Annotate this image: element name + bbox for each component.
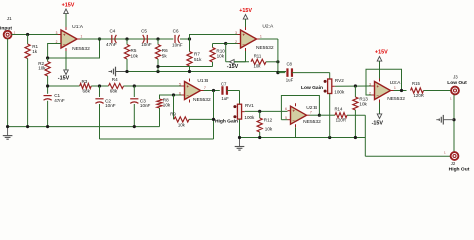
connector J3 Low Out [447, 74, 467, 100]
svg-text:3: 3 [56, 31, 58, 35]
wire C7 to RV1 [239, 91, 241, 105]
potentiometer RV2 100k [324, 78, 345, 95]
svg-text:10k: 10k [163, 102, 171, 107]
capacitor C7 1uF [221, 81, 240, 101]
svg-text:68k: 68k [82, 89, 90, 94]
svg-text:10k: 10k [38, 65, 46, 70]
node J3 ground junction [452, 118, 455, 121]
svg-text:C8: C8 [286, 62, 292, 67]
node A junction [26, 33, 29, 36]
node R13 rail junction [354, 136, 357, 139]
svg-text:U3:A: U3:A [390, 80, 402, 86]
node R11 output junction [276, 60, 279, 63]
ground bus bottom left [8, 126, 160, 128]
svg-text:3: 3 [369, 82, 371, 86]
wire U2:B output [310, 114, 320, 116]
capacitor C4 47nF [106, 29, 117, 47]
svg-text:5k: 5k [162, 54, 168, 59]
svg-text:1uF: 1uF [286, 77, 294, 82]
svg-text:Low Gain: Low Gain [301, 85, 323, 91]
svg-text:NE5532: NE5532 [193, 97, 211, 103]
svg-text:10nF: 10nF [172, 42, 183, 47]
node feedback-R2 junction [46, 56, 49, 59]
node U2:A pin2 junction [224, 42, 237, 45]
svg-text:10k: 10k [359, 101, 367, 106]
resistor R5 10k [124, 39, 138, 72]
svg-text:1uF: 1uF [221, 96, 229, 101]
+15V power U2:A [239, 8, 252, 27]
ground rail / low line [116, 71, 287, 73]
wire C6 to R7 node [180, 38, 190, 40]
svg-text:NE5532: NE5532 [72, 46, 90, 52]
svg-text:10k: 10k [217, 54, 225, 59]
resistor R7 51k [187, 39, 202, 72]
svg-text:High Gain: High Gain [215, 119, 238, 125]
svg-text:U1:A: U1:A [72, 24, 84, 30]
svg-text:J3: J3 [453, 74, 458, 79]
svg-text:1k: 1k [32, 49, 38, 54]
resistor R6 5k [155, 39, 168, 67]
node R9 right junction [212, 118, 215, 121]
svg-text:100k: 100k [334, 90, 345, 95]
svg-text:J1: J1 [7, 16, 12, 21]
node R7 junction [188, 37, 191, 40]
node R12 rail junction [258, 136, 261, 139]
svg-text:NE5532: NE5532 [256, 45, 274, 51]
resistor R12 10k [257, 111, 273, 137]
wire R10 to pin2 node [213, 43, 226, 45]
capacitor C1 47nF [44, 86, 65, 127]
svg-text:R14: R14 [334, 107, 342, 112]
svg-text:10k: 10k [131, 54, 139, 59]
svg-text:RV1: RV1 [245, 103, 254, 108]
svg-text:U2:B: U2:B [306, 105, 317, 111]
ground symbol sideways left [109, 67, 128, 77]
capacitor C3 10nF [130, 86, 150, 127]
resistor R11 10k [251, 54, 278, 69]
wire U1:A output row [80, 38, 173, 40]
resistor R13 10k [353, 86, 368, 138]
wire J1 ground pin down [7, 39, 9, 127]
svg-text:1: 1 [81, 34, 83, 38]
wire U2:B V- to rail [295, 127, 297, 137]
svg-text:Input: Input [0, 25, 12, 31]
svg-text:10k: 10k [265, 126, 273, 131]
svg-text:+15V: +15V [239, 8, 252, 14]
svg-text:R12: R12 [264, 118, 273, 123]
wire U1:B output [204, 90, 220, 92]
wire up to U2:A pin3 [190, 35, 238, 40]
connector J2 High Out [444, 151, 470, 173]
potentiometer RV1 100k [233, 103, 255, 120]
svg-text:51k: 51k [194, 57, 202, 62]
svg-text:+15V: +15V [375, 50, 388, 56]
bottom rail right section [240, 137, 366, 139]
node C3 ground junction [133, 125, 136, 128]
resistor R14 120R [319, 107, 365, 123]
node U1:A output junction [98, 37, 101, 40]
op-amp U1:B [179, 78, 211, 103]
node U3:A output junction [400, 89, 403, 92]
svg-text:3: 3 [235, 31, 237, 35]
wire output down to R9/low box [100, 91, 214, 140]
svg-text:7: 7 [204, 86, 206, 90]
+15V power U3:A [375, 50, 388, 79]
connector J1 Input [0, 16, 16, 39]
node R5 rail junction [125, 70, 128, 73]
wire low line to C8 [278, 72, 285, 74]
node U2:B output junction [318, 114, 321, 117]
node C1 ground junction [46, 125, 49, 128]
wire U3:A feedback box [366, 69, 402, 95]
node R1 ground junction [26, 125, 29, 128]
svg-text:1: 1 [394, 86, 396, 90]
capacitor C5 10nF [141, 29, 152, 47]
-15V power U3:A [372, 103, 384, 127]
resistor R8 10k [157, 97, 171, 126]
svg-text:47nF: 47nF [54, 98, 65, 103]
svg-text:10nF: 10nF [141, 42, 152, 47]
svg-text:7: 7 [310, 111, 312, 115]
svg-text:10nF: 10nF [105, 103, 116, 108]
svg-text:RV2: RV2 [335, 78, 344, 83]
svg-text:120R: 120R [336, 117, 346, 122]
svg-text:R4: R4 [112, 77, 118, 82]
resistor R15 120R [411, 81, 452, 98]
wire high out drop [365, 115, 450, 156]
node RV2 rail junction [328, 136, 331, 139]
wire R4 to C3 node [124, 85, 182, 87]
svg-text:68k: 68k [110, 89, 118, 94]
label Low Gain [301, 85, 323, 91]
svg-text:High Out: High Out [449, 167, 470, 173]
node R13 junction [354, 84, 357, 87]
node R6 rail junction [156, 67, 159, 74]
wire R3 to node [91, 85, 108, 87]
svg-text:U2:A: U2:A [262, 23, 274, 29]
svg-text:120R: 120R [414, 93, 424, 98]
svg-text:R6: R6 [162, 48, 168, 53]
svg-text:C5: C5 [141, 29, 147, 34]
wire U1:A feedback loop [48, 39, 100, 58]
wire U3:A output [394, 90, 407, 92]
svg-text:R9: R9 [170, 111, 176, 116]
op-amp U2:B [285, 103, 321, 127]
wire RV2 wiper to U3:A [335, 85, 372, 87]
wire RV1 bottom to rail [239, 119, 241, 137]
node R7 rail junction [188, 70, 191, 73]
+15V power U1:A [62, 3, 75, 28]
resistor R2 10k [38, 58, 50, 86]
svg-text:-15V: -15V [58, 76, 70, 82]
svg-text:47nF: 47nF [106, 42, 117, 47]
svg-text:10k: 10k [254, 63, 262, 68]
svg-text:NE5532: NE5532 [387, 96, 405, 102]
ground symbol main [3, 125, 13, 139]
svg-text:5: 5 [179, 82, 181, 86]
node R5 junction [125, 37, 128, 40]
svg-text:R3: R3 [81, 79, 87, 84]
svg-text:6: 6 [285, 107, 287, 111]
resistor R4 68k [109, 77, 124, 93]
wire pin2 node down [226, 44, 249, 62]
svg-text:-15V: -15V [227, 64, 239, 70]
resistor R9 10k [170, 95, 213, 128]
resistor R1 1k [25, 35, 39, 127]
svg-text:R15: R15 [412, 81, 420, 86]
wire U1:B pin6 loop [160, 95, 182, 99]
wire mid rail [46, 84, 80, 87]
svg-text:C6: C6 [173, 29, 179, 34]
wire J3 ground pin down [453, 95, 455, 152]
capacitor C6 10nF [172, 29, 183, 48]
node R6 junction [156, 37, 159, 40]
node low line junction [276, 71, 279, 74]
op-amp U1:A [56, 24, 91, 52]
op-amp U3:A [369, 79, 405, 103]
-15V power U1:A [58, 51, 70, 82]
svg-text:R7: R7 [194, 52, 200, 57]
svg-text:NE5532: NE5532 [303, 119, 321, 125]
wire R6-R10 upper segment [156, 65, 212, 68]
node U1:B output junction [212, 89, 215, 92]
svg-text:R5: R5 [131, 48, 137, 53]
svg-text:10k: 10k [178, 123, 186, 128]
ground symbol sideways right [436, 115, 454, 125]
capacitor C2 10nF [95, 86, 115, 139]
wire U2:B feedback box [281, 96, 319, 120]
svg-text:J2: J2 [451, 161, 456, 166]
node C2 junction [98, 84, 101, 87]
ground symbol bottom mid [235, 136, 245, 150]
op-amp U2:A [235, 23, 274, 51]
svg-text:10nF: 10nF [140, 103, 151, 108]
svg-text:C7: C7 [221, 81, 227, 86]
svg-text:U1:B: U1:B [197, 78, 208, 84]
node R9 top junction [172, 93, 175, 96]
node C3 junction [133, 84, 136, 87]
label High Gain [215, 119, 238, 125]
node R12 junction [258, 110, 261, 113]
wire low line to RV2 top [329, 73, 331, 79]
svg-text:C4: C4 [109, 29, 115, 34]
-15V power U2:A [227, 51, 246, 70]
wire RV2 bottom to rail [329, 94, 331, 138]
wire U2:A output [260, 39, 278, 73]
svg-text:Low Out: Low Out [447, 80, 467, 86]
svg-text:+15V: +15V [62, 3, 75, 9]
wire J1 to U1:A pin3 [12, 34, 59, 36]
resistor R10 10k [210, 44, 225, 67]
wire RV1 wiper row [245, 110, 288, 112]
svg-text:1: 1 [260, 34, 262, 38]
capacitor C8 1uF [286, 62, 330, 83]
svg-text:100k: 100k [244, 115, 255, 120]
resistor R3 68k [80, 79, 92, 93]
svg-text:-15V: -15V [372, 120, 384, 126]
svg-text:R11: R11 [254, 54, 262, 59]
